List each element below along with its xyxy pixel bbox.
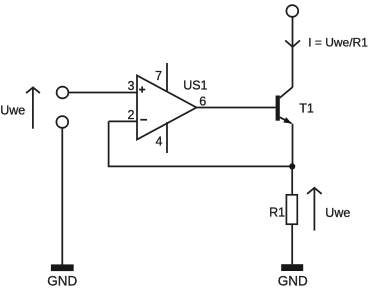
svg-text:Uwe: Uwe [0,103,25,117]
svg-text:US1: US1 [183,78,207,92]
svg-text:I = Uwe/R1: I = Uwe/R1 [308,35,368,49]
svg-text:GND: GND [278,273,308,288]
svg-text:R1: R1 [269,206,285,220]
svg-text:4: 4 [156,135,163,149]
svg-text:7: 7 [155,69,162,83]
svg-text:3: 3 [127,79,134,93]
svg-text:Uwe: Uwe [325,206,350,220]
svg-text:GND: GND [47,274,77,288]
svg-text:T1: T1 [299,102,314,116]
svg-text:2: 2 [127,108,134,122]
svg-text:6: 6 [199,94,206,108]
